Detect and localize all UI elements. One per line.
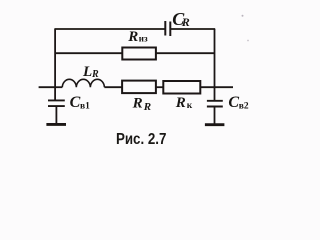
scan speckle xyxy=(242,15,244,17)
inductor L_R xyxy=(62,79,104,87)
ground bar right xyxy=(205,123,225,126)
svg-text:C: C xyxy=(70,94,81,111)
scan speckle xyxy=(247,40,249,42)
label Cв1 xyxy=(70,94,91,112)
svg-text:Рис. 2.7: Рис. 2.7 xyxy=(116,131,167,148)
wire R_R to Rк xyxy=(156,86,163,88)
capacitor Cв1 bottom lead xyxy=(55,106,57,123)
wire middle right segment xyxy=(156,52,215,54)
capacitor Cв2 top lead xyxy=(214,87,216,101)
svg-text:в2: в2 xyxy=(239,101,249,111)
capacitor Cв1 top lead xyxy=(54,87,56,100)
svg-text:R: R xyxy=(132,95,143,111)
svg-text:R: R xyxy=(127,29,138,45)
resistor Rк box xyxy=(163,81,200,94)
capacitor C_R xyxy=(165,21,170,36)
wire left terminal stub xyxy=(39,86,56,88)
svg-text:C: C xyxy=(228,94,239,111)
wire Rк to right vertical and right terminal stub xyxy=(200,86,233,88)
capacitor Cв2 plates xyxy=(207,101,223,107)
capacitor Cв1 plates xyxy=(48,100,65,106)
svg-text:R: R xyxy=(143,101,151,113)
svg-text:R: R xyxy=(91,69,99,80)
wire top left segment xyxy=(54,28,165,30)
wire right vertical (node B) xyxy=(214,29,216,88)
svg-text:из: из xyxy=(139,34,148,44)
resistor Rиз box xyxy=(122,48,156,60)
capacitor Cв2 bottom lead xyxy=(214,107,216,124)
label Rиз xyxy=(127,29,148,45)
label Cв2 xyxy=(228,94,249,112)
label C_R xyxy=(172,9,190,29)
wire middle left segment xyxy=(55,52,122,54)
label R_R xyxy=(132,95,152,113)
wire left vertical (node A) xyxy=(54,29,56,88)
svg-text:L: L xyxy=(82,64,92,80)
svg-text:R: R xyxy=(175,95,186,111)
ground bar left xyxy=(46,123,66,126)
svg-text:к: к xyxy=(187,101,193,111)
label L_R xyxy=(82,64,99,80)
resistor R_R box xyxy=(122,81,156,94)
svg-text:в1: в1 xyxy=(80,101,90,111)
wire inductor to R_R xyxy=(104,86,122,88)
wire main left lead xyxy=(55,86,62,88)
label Rк xyxy=(175,95,193,111)
svg-text:R: R xyxy=(181,15,190,29)
wire top right segment xyxy=(170,28,215,30)
